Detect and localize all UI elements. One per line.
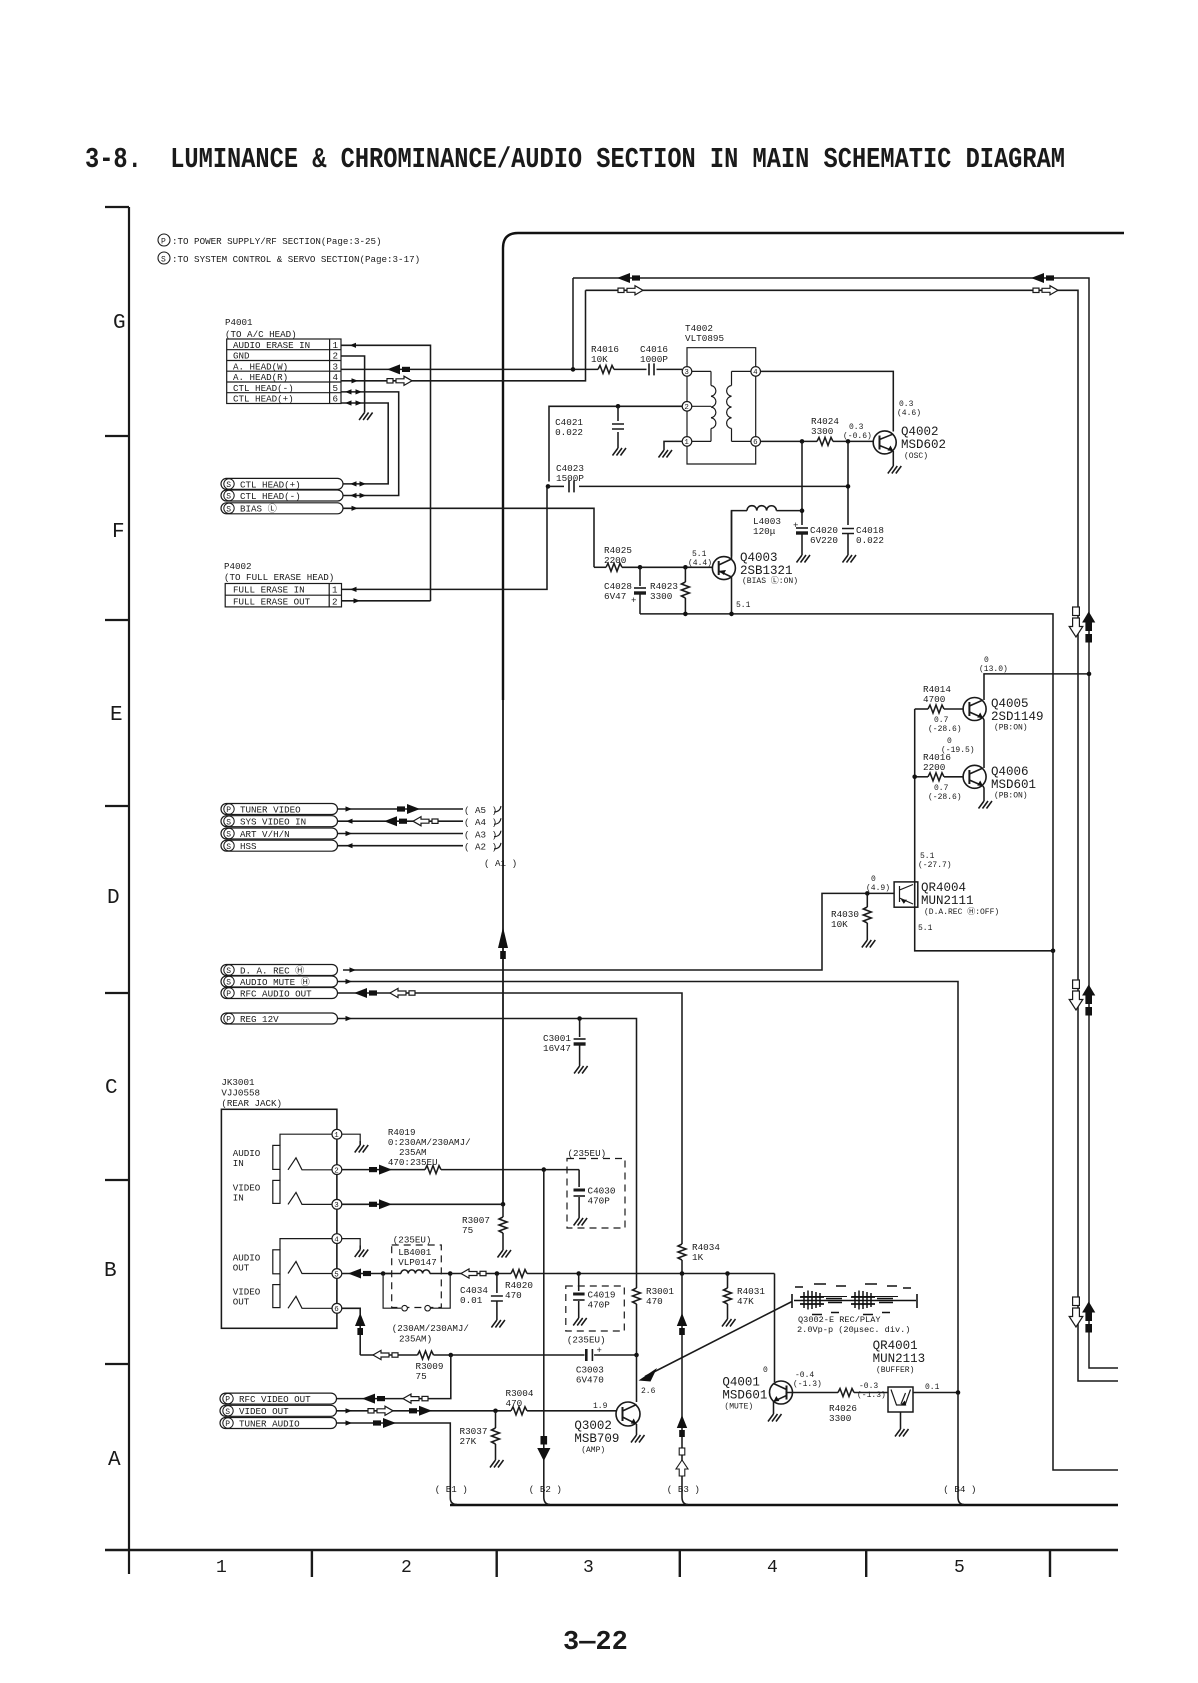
C4030 capacitor bbox=[574, 1170, 616, 1214]
svg-text:P: P bbox=[226, 1016, 231, 1025]
svg-text:( A5 ): ( A5 ) bbox=[464, 805, 497, 816]
R3009 resistor bbox=[416, 1351, 637, 1382]
QR4004 digital transistor bbox=[894, 881, 999, 917]
svg-text:5.1: 5.1 bbox=[920, 852, 935, 861]
C4018 capacitor bbox=[842, 525, 884, 551]
TUNER AUDIO pill bbox=[220, 1418, 337, 1430]
svg-text:1: 1 bbox=[684, 439, 689, 447]
P4002 row labels bbox=[233, 585, 338, 608]
wire REG 12V across bbox=[338, 1016, 637, 1269]
svg-text:GND: GND bbox=[233, 351, 250, 362]
R4031 resistor bbox=[724, 1271, 766, 1315]
svg-text:1: 1 bbox=[333, 340, 339, 351]
svg-text:A: A bbox=[108, 1449, 121, 1472]
wire JK3001 pin5 audio out line bbox=[342, 1269, 392, 1279]
svg-text:4: 4 bbox=[333, 372, 339, 383]
svg-text:6: 6 bbox=[753, 439, 758, 447]
svg-text:(4.4): (4.4) bbox=[688, 559, 712, 568]
svg-text:5.1: 5.1 bbox=[736, 601, 751, 610]
arrows on right vertical rails lower bbox=[1069, 1297, 1095, 1333]
wire QR4004 emitter down and across bbox=[915, 906, 1056, 953]
svg-text:E: E bbox=[110, 704, 123, 727]
wire P4001 pin1 audio erase in bbox=[341, 343, 431, 601]
svg-text:(MUTE): (MUTE) bbox=[724, 1403, 753, 1412]
D.A.REC pill bbox=[221, 965, 338, 977]
svg-text:P: P bbox=[226, 990, 231, 999]
wire P4001 pin3 A.HEAD(W) bbox=[341, 278, 573, 374]
svg-text:( A3 ): ( A3 ) bbox=[464, 829, 497, 840]
svg-text:(-28.6): (-28.6) bbox=[928, 793, 962, 802]
AUDIO MUTE pill bbox=[221, 976, 338, 988]
connector P4001 labels bbox=[225, 317, 297, 340]
svg-text:470P: 470P bbox=[588, 1196, 611, 1207]
voltage label Q4001 bbox=[793, 1371, 822, 1389]
P4002 labels bbox=[224, 561, 334, 583]
wire TUNER AUDIO to B1 bbox=[337, 1418, 458, 1505]
R3037 resistor bbox=[460, 1411, 500, 1456]
svg-text:(4.9): (4.9) bbox=[866, 884, 890, 893]
svg-text:MUN2111: MUN2111 bbox=[921, 894, 974, 908]
CTL HEAD + pill bbox=[221, 478, 343, 490]
svg-text:S: S bbox=[226, 831, 231, 840]
svg-text:( B4 ): ( B4 ) bbox=[943, 1484, 976, 1495]
svg-text:P: P bbox=[161, 238, 166, 247]
svg-text:-0.3: -0.3 bbox=[859, 1382, 878, 1391]
R4023 resistor bbox=[650, 567, 689, 614]
C4030 dashed box 235EU bbox=[567, 1148, 625, 1228]
svg-text:( A2 ): ( A2 ) bbox=[464, 842, 497, 853]
svg-text:2: 2 bbox=[401, 1558, 412, 1578]
RFC AUDIO OUT pill bbox=[221, 988, 338, 1000]
svg-text:( A1 ): ( A1 ) bbox=[484, 858, 517, 869]
LB4001 dashed box bbox=[392, 1235, 442, 1308]
R4024 resistor bbox=[811, 416, 874, 445]
ground Q4006 emitter bbox=[979, 797, 993, 809]
wire second rail to A head R bbox=[586, 286, 1119, 1381]
C4023 capacitor bbox=[546, 463, 848, 492]
svg-text:470:235EU: 470:235EU bbox=[388, 1157, 438, 1168]
JK3001 output jacks internals bbox=[273, 1239, 332, 1309]
wire Q4002 base node down bbox=[846, 441, 851, 525]
svg-text:0.3: 0.3 bbox=[849, 423, 864, 432]
wire JK3001 pin2 audio in bbox=[342, 1165, 425, 1175]
ground T4002 pin1 bbox=[659, 446, 673, 458]
bottom schematic border bbox=[450, 1504, 1118, 1507]
R4016b resistor 2200 bbox=[915, 752, 963, 781]
svg-text:(-0.6): (-0.6) bbox=[843, 432, 872, 441]
svg-text:FULL ERASE OUT: FULL ERASE OUT bbox=[233, 596, 311, 607]
wire T4002 pin2 to C4021 bbox=[549, 404, 682, 482]
wire JK3001 pin4 to ground bbox=[342, 1239, 360, 1246]
R3009 wire bbox=[360, 1350, 417, 1359]
wire P4001 pin4 A.HEAD(R) bbox=[341, 290, 586, 385]
wire JK3001 pin3 video in to A1 bbox=[342, 1199, 503, 1209]
svg-text:(13.0): (13.0) bbox=[979, 665, 1008, 674]
svg-text:1: 1 bbox=[216, 1558, 227, 1578]
svg-text:CTL HEAD(-): CTL HEAD(-) bbox=[233, 383, 294, 394]
BIAS pill bbox=[221, 503, 343, 515]
svg-text:3-8. LUMINANCE & CHROMINANCE/: 3-8. LUMINANCE & CHROMINANCE/AUDIO SECTI… bbox=[85, 143, 1065, 176]
svg-text:( B2 ): ( B2 ) bbox=[529, 1484, 562, 1495]
svg-text:0.022: 0.022 bbox=[856, 535, 884, 546]
svg-text:(4.6): (4.6) bbox=[897, 409, 921, 418]
svg-text:6V220: 6V220 bbox=[810, 535, 838, 546]
svg-text:0: 0 bbox=[984, 656, 989, 665]
wire P4002 pin1 full erase in bbox=[342, 486, 548, 592]
voltage label Q4006 base bbox=[928, 784, 962, 802]
wire T4002 pin4 to Q4002 collector bbox=[761, 371, 894, 431]
R3004 resistor bbox=[506, 1388, 617, 1415]
svg-text:6V47: 6V47 bbox=[604, 591, 626, 602]
svg-text:2: 2 bbox=[684, 404, 689, 412]
svg-text:5: 5 bbox=[333, 383, 339, 394]
svg-text:5: 5 bbox=[954, 1558, 965, 1578]
svg-text:75: 75 bbox=[462, 1225, 473, 1236]
wire pin6 node down to L4003 rail bbox=[800, 441, 805, 525]
transistor Q4006 bbox=[963, 765, 1036, 801]
R4034 resistor bbox=[678, 1237, 720, 1276]
pointer arrow from waveform to Q3002 bbox=[639, 1302, 793, 1382]
wire node 1053 down to bottom right bbox=[1053, 951, 1118, 1470]
transistor Q4003 bbox=[712, 511, 798, 614]
C3001 capacitor bbox=[543, 1019, 586, 1063]
wire JK3001 pin6 video out down bbox=[342, 1308, 366, 1355]
wire AUDIO MUTE across bbox=[338, 979, 959, 1393]
svg-text:OUT: OUT bbox=[233, 1297, 250, 1308]
svg-text:A. HEAD(W): A. HEAD(W) bbox=[233, 361, 288, 372]
voltage label Q4005 collector bbox=[979, 656, 1008, 674]
svg-text:(BIAS Ⓛ:ON): (BIAS Ⓛ:ON) bbox=[742, 576, 798, 586]
node A2 bbox=[464, 842, 501, 853]
wire P4001 pin5 ctl head - bbox=[341, 389, 399, 495]
svg-text:3—22: 3—22 bbox=[563, 1628, 628, 1658]
voltage label Q4002 collector bbox=[897, 400, 921, 418]
svg-text:0.7: 0.7 bbox=[934, 716, 949, 725]
svg-text:P: P bbox=[226, 806, 231, 815]
svg-text:470P: 470P bbox=[588, 1300, 611, 1311]
svg-text:0: 0 bbox=[763, 1366, 768, 1375]
bottom wire of oscillator to inner node bbox=[640, 612, 1053, 951]
svg-text:JK3001: JK3001 bbox=[221, 1077, 255, 1088]
B2 vertical wire bbox=[537, 1170, 550, 1505]
svg-text:TUNER VIDEO: TUNER VIDEO bbox=[240, 804, 301, 815]
svg-text:+: + bbox=[631, 596, 636, 606]
wire SYS VIDEO IN to A4 bbox=[338, 816, 464, 826]
svg-text:P: P bbox=[225, 1396, 230, 1405]
svg-text:2.6: 2.6 bbox=[641, 1387, 656, 1396]
svg-text:2: 2 bbox=[334, 1167, 339, 1175]
svg-text:(-27.7): (-27.7) bbox=[918, 861, 952, 870]
svg-text::TO SYSTEM CONTROL & SERVO SEC: :TO SYSTEM CONTROL & SERVO SECTION(Page:… bbox=[172, 254, 420, 265]
svg-text:+: + bbox=[793, 521, 798, 531]
svg-text:1000P: 1000P bbox=[640, 354, 668, 365]
svg-text:P4002: P4002 bbox=[224, 561, 252, 572]
svg-text:( B1 ): ( B1 ) bbox=[435, 1484, 468, 1495]
wire D.A.REC to QR4004 input bbox=[343, 891, 894, 973]
svg-text:Q3002-E REC/PLAY: Q3002-E REC/PLAY bbox=[798, 1315, 881, 1325]
ground C4034 bbox=[491, 1316, 505, 1328]
svg-text::TO POWER SUPPLY/RF SECTION(Pa: :TO POWER SUPPLY/RF SECTION(Page:3-25) bbox=[172, 236, 382, 247]
svg-text:ART V/H/N: ART V/H/N bbox=[240, 829, 290, 840]
svg-text:3: 3 bbox=[684, 369, 689, 377]
RFC VIDEO OUT pill bbox=[220, 1393, 337, 1405]
svg-text:Q4005: Q4005 bbox=[991, 697, 1029, 711]
wire 13V rail to Q4005 collector bbox=[984, 672, 1091, 698]
svg-text:1K: 1K bbox=[692, 1252, 704, 1263]
node A5 bbox=[464, 805, 501, 816]
waveform oscillogram bbox=[792, 1284, 917, 1315]
svg-text:235AM): 235AM) bbox=[399, 1334, 432, 1345]
BIAS wire to R4025 bbox=[343, 508, 594, 567]
svg-text:3300: 3300 bbox=[811, 426, 833, 437]
transistor Q4001 bbox=[722, 1376, 838, 1412]
svg-text:16V47: 16V47 bbox=[543, 1043, 571, 1054]
ground Q3002 emitter bbox=[631, 1431, 645, 1443]
ground C4018 bbox=[843, 551, 857, 563]
R3007 resistor bbox=[462, 1202, 507, 1246]
svg-text:2.0Vp-p (20μsec. div.): 2.0Vp-p (20μsec. div.) bbox=[797, 1325, 910, 1335]
svg-text:MSD601: MSD601 bbox=[991, 778, 1036, 792]
svg-text:S: S bbox=[226, 818, 231, 827]
svg-text:4700: 4700 bbox=[923, 694, 945, 705]
svg-text:(235EU): (235EU) bbox=[393, 1235, 432, 1246]
voltage label QR4004 top bbox=[918, 852, 952, 870]
A1 vertical line bbox=[498, 700, 508, 1204]
svg-text:(TO A/C HEAD): (TO A/C HEAD) bbox=[225, 329, 297, 340]
JK3001 jack text labels bbox=[233, 1148, 261, 1308]
C4028 capacitor electrolytic bbox=[604, 567, 646, 614]
voltage label Q4005 base bbox=[928, 716, 962, 734]
svg-text:MSD601: MSD601 bbox=[722, 1389, 767, 1403]
JK3001 pin circles bbox=[332, 1129, 342, 1313]
svg-text:(PB:ON): (PB:ON) bbox=[994, 792, 1028, 801]
ground C4020 bbox=[797, 551, 811, 563]
ground C4030 bbox=[574, 1214, 588, 1226]
svg-text:F: F bbox=[112, 521, 125, 544]
svg-text:SYS VIDEO IN: SYS VIDEO IN bbox=[240, 817, 306, 828]
svg-text:S: S bbox=[161, 256, 166, 265]
svg-text:S: S bbox=[226, 505, 231, 514]
svg-text:C: C bbox=[105, 1077, 118, 1100]
R4016 resistor bbox=[571, 344, 647, 373]
Q4001 feed wire from audio line bbox=[774, 1274, 776, 1383]
LB4001 bypass switch bbox=[383, 1271, 452, 1311]
svg-text:(OSC): (OSC) bbox=[904, 452, 928, 461]
ground Q4002 emitter bbox=[888, 462, 902, 474]
svg-text:D: D bbox=[107, 887, 120, 910]
svg-text:27K: 27K bbox=[460, 1436, 477, 1447]
svg-text:6: 6 bbox=[334, 1306, 339, 1314]
JK3001 labels bbox=[221, 1077, 282, 1109]
L4003 inductor bbox=[732, 506, 803, 557]
ground JK3001 pin1 bbox=[355, 1141, 369, 1153]
TUNER VIDEO pill bbox=[221, 804, 338, 816]
R4025 resistor bbox=[594, 545, 642, 571]
svg-text:D. A. REC Ⓗ: D. A. REC Ⓗ bbox=[240, 965, 304, 976]
B3 vertical wire bbox=[676, 1274, 688, 1505]
ground R3037 bbox=[490, 1456, 504, 1468]
svg-text:1500P: 1500P bbox=[556, 473, 584, 484]
wire RFC AUDIO OUT across bbox=[338, 988, 683, 1237]
svg-text:6: 6 bbox=[333, 394, 339, 405]
wire TUNER VIDEO to A5 bbox=[338, 804, 464, 814]
svg-text:VLP0147: VLP0147 bbox=[398, 1257, 437, 1268]
waveform caption bbox=[797, 1315, 910, 1335]
R4014 resistor bbox=[915, 684, 963, 713]
svg-text:0.01: 0.01 bbox=[460, 1295, 483, 1306]
svg-text:5: 5 bbox=[334, 1271, 339, 1279]
svg-text:AUDIO MUTE Ⓗ: AUDIO MUTE Ⓗ bbox=[240, 977, 310, 988]
svg-text:HSS: HSS bbox=[240, 841, 257, 852]
svg-text:(BUFFER): (BUFFER) bbox=[876, 1366, 914, 1375]
svg-text:CTL HEAD(-): CTL HEAD(-) bbox=[240, 491, 301, 502]
wire ART to A3 bbox=[338, 831, 464, 836]
connector P4001 box bbox=[227, 339, 341, 404]
svg-text:VJJ0558: VJJ0558 bbox=[221, 1088, 260, 1099]
svg-text:S: S bbox=[226, 481, 231, 490]
C4021 capacitor bbox=[555, 406, 624, 444]
svg-text:4: 4 bbox=[334, 1236, 339, 1244]
C4016 capacitor bbox=[640, 344, 682, 375]
svg-text:2SB1321: 2SB1321 bbox=[740, 564, 793, 578]
svg-text:120μ: 120μ bbox=[753, 526, 776, 537]
svg-text:CTL HEAD(+): CTL HEAD(+) bbox=[240, 479, 301, 490]
QR4001 labels bbox=[873, 1339, 926, 1375]
svg-text:10K: 10K bbox=[831, 919, 848, 930]
svg-text:QR4004: QR4004 bbox=[921, 881, 966, 895]
transistor Q3002 bbox=[574, 1402, 640, 1455]
svg-text:MSB709: MSB709 bbox=[574, 1432, 619, 1446]
ground C4021 bbox=[613, 444, 627, 456]
svg-text:VIDEO OUT: VIDEO OUT bbox=[239, 1406, 289, 1417]
svg-text:AUDIO ERASE IN: AUDIO ERASE IN bbox=[233, 340, 310, 351]
svg-text:-0.4: -0.4 bbox=[795, 1371, 814, 1380]
svg-text:Q4002: Q4002 bbox=[901, 425, 939, 439]
svg-text:RFC VIDEO OUT: RFC VIDEO OUT bbox=[239, 1394, 311, 1405]
arrows on right vertical rails upper bbox=[1069, 607, 1095, 643]
svg-text:( A4 ): ( A4 ) bbox=[464, 817, 497, 828]
svg-text:(235EU): (235EU) bbox=[567, 1335, 606, 1346]
svg-text:1: 1 bbox=[334, 1132, 339, 1140]
svg-text:(-1.3): (-1.3) bbox=[793, 1380, 822, 1389]
wire top rail to A head W bbox=[573, 273, 1089, 674]
svg-text:+: + bbox=[597, 1346, 602, 1356]
svg-text:470: 470 bbox=[506, 1398, 523, 1409]
svg-text:6V470: 6V470 bbox=[576, 1375, 604, 1386]
transformer T4002 bbox=[682, 323, 760, 464]
svg-text:OUT: OUT bbox=[233, 1263, 250, 1274]
R4019 resistor bbox=[425, 1166, 579, 1174]
ground QR4001 bbox=[895, 1425, 909, 1437]
ground R4030 bbox=[862, 936, 876, 948]
node A4 bbox=[464, 817, 501, 828]
svg-text:4: 4 bbox=[767, 1558, 778, 1578]
svg-text:MSD602: MSD602 bbox=[901, 438, 946, 452]
wire T4002 pin1 to ground bbox=[664, 441, 682, 446]
svg-text:47K: 47K bbox=[737, 1296, 754, 1307]
svg-text:G: G bbox=[113, 312, 126, 335]
svg-text:3300: 3300 bbox=[650, 591, 672, 602]
wire RFC VIDEO OUT bbox=[337, 1355, 451, 1404]
ground R3007 bbox=[498, 1246, 512, 1258]
voltage label QR4001 input bbox=[857, 1382, 886, 1400]
ground C4019 bbox=[573, 1314, 587, 1326]
transistor Q4002 bbox=[873, 425, 946, 462]
wire P4001 pin2 gnd bbox=[341, 356, 365, 409]
voltage label Q4002 base bbox=[843, 423, 872, 441]
svg-text:A. HEAD(R): A. HEAD(R) bbox=[233, 372, 288, 383]
ground JK3001 pin4 bbox=[355, 1246, 369, 1258]
ruler numbers bbox=[216, 1558, 965, 1578]
wire JK3001 pin1 to ground bbox=[342, 1134, 360, 1141]
svg-text:3: 3 bbox=[583, 1558, 594, 1578]
HSS pill bbox=[221, 840, 338, 852]
ground P4001 pin2 bbox=[359, 409, 373, 421]
svg-text:(-1.3): (-1.3) bbox=[857, 1391, 886, 1400]
B labels bbox=[435, 1484, 977, 1495]
svg-text:4: 4 bbox=[753, 369, 758, 377]
svg-text:S: S bbox=[226, 493, 231, 502]
svg-text:5.1: 5.1 bbox=[692, 550, 707, 559]
svg-text:BIAS Ⓛ: BIAS Ⓛ bbox=[240, 504, 277, 515]
node C3003 junction bbox=[634, 1353, 639, 1358]
svg-text:0.7: 0.7 bbox=[934, 784, 949, 793]
svg-text:( B3 ): ( B3 ) bbox=[667, 1484, 700, 1495]
node A3 bbox=[464, 829, 501, 840]
svg-text:QR4001: QR4001 bbox=[873, 1339, 918, 1353]
JK3001 box bbox=[221, 1109, 337, 1328]
REG 12V pill bbox=[221, 1013, 338, 1025]
ruler letters bbox=[104, 312, 126, 1472]
R3001 resistor in 12V feed bbox=[633, 1269, 675, 1355]
wire P4002 pin2 full erase out bbox=[342, 598, 431, 603]
wire black rail lower part bbox=[1089, 674, 1118, 1368]
svg-text:MUN2113: MUN2113 bbox=[873, 1352, 926, 1366]
svg-text:S: S bbox=[226, 979, 231, 988]
svg-text:(TO FULL ERASE HEAD): (TO FULL ERASE HEAD) bbox=[224, 572, 334, 583]
wire audio out line with white arrow bbox=[450, 1269, 511, 1278]
svg-text:3: 3 bbox=[334, 1202, 339, 1210]
JK3001 input jacks internals bbox=[273, 1134, 332, 1204]
svg-text:S: S bbox=[226, 843, 231, 852]
R4019 label bbox=[388, 1127, 471, 1168]
svg-text:1: 1 bbox=[332, 585, 338, 596]
svg-text:3: 3 bbox=[333, 361, 339, 372]
wire base node Q4003 bbox=[640, 565, 712, 570]
wire T4002 pin6 node bbox=[761, 439, 818, 444]
bottom ruler bbox=[105, 1550, 1118, 1577]
ART V/H/N pill bbox=[221, 828, 338, 840]
svg-text:S: S bbox=[225, 1408, 230, 1417]
C4034 capacitor bbox=[460, 1274, 503, 1317]
svg-text:RFC AUDIO OUT: RFC AUDIO OUT bbox=[240, 988, 312, 999]
svg-text:Q4003: Q4003 bbox=[740, 551, 778, 565]
svg-text:(-28.6): (-28.6) bbox=[928, 725, 962, 734]
svg-text:IN: IN bbox=[233, 1158, 244, 1169]
LB4001 variant label bbox=[392, 1323, 469, 1345]
R4020 resistor bbox=[505, 1270, 775, 1302]
wire HSS to A2 bbox=[338, 843, 464, 848]
legend P S bbox=[158, 234, 420, 265]
R4026 resistor bbox=[829, 1389, 888, 1425]
svg-text:0: 0 bbox=[947, 737, 952, 746]
svg-text:2: 2 bbox=[332, 596, 338, 607]
JK3001 pin link line bbox=[336, 1134, 338, 1308]
svg-text:Q3002: Q3002 bbox=[574, 1419, 612, 1433]
svg-text:0.1: 0.1 bbox=[925, 1383, 940, 1392]
B4 vertical wire lower bbox=[958, 1393, 964, 1505]
svg-text:3300: 3300 bbox=[829, 1413, 851, 1424]
